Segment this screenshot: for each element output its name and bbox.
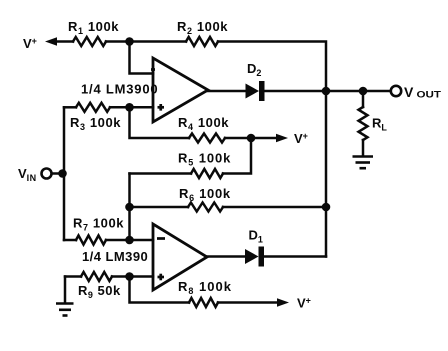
svg-text:1/4 LM390: 1/4 LM390 bbox=[82, 249, 148, 264]
svg-text:V: V bbox=[404, 84, 414, 100]
svg-text:R7 100k: R7 100k bbox=[73, 216, 124, 233]
svg-text:1/4 LM3900: 1/4 LM3900 bbox=[81, 82, 158, 97]
svg-text:R1 100k: R1 100k bbox=[68, 19, 119, 36]
svg-text:R3 100k: R3 100k bbox=[70, 115, 121, 132]
svg-text:R6 100k: R6 100k bbox=[179, 186, 231, 203]
svg-text:R5 100k: R5 100k bbox=[178, 151, 231, 168]
svg-text:R8 100k: R8 100k bbox=[178, 279, 232, 296]
svg-text:OUT: OUT bbox=[417, 90, 442, 101]
svg-text:R9 50k: R9 50k bbox=[78, 283, 121, 300]
svg-text:R4 100k: R4 100k bbox=[178, 115, 229, 132]
svg-text:R2 100k: R2 100k bbox=[177, 19, 228, 36]
